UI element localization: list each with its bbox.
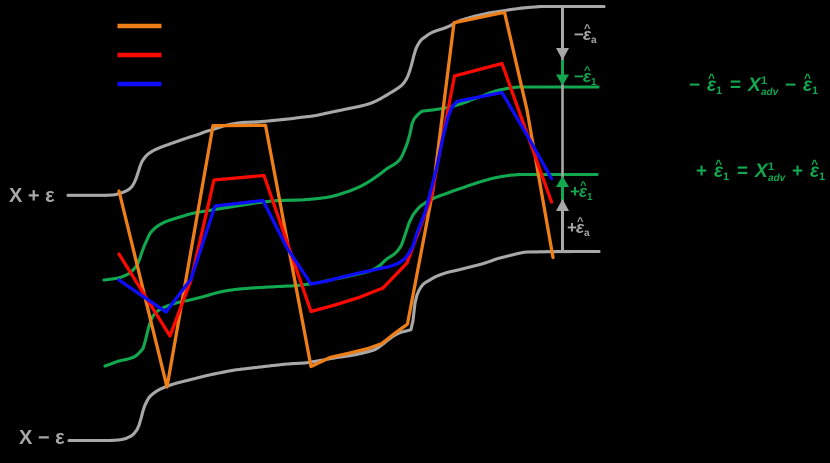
gray down arrow -eps_a [561,8,564,48]
gray up arrow +eps_a [561,211,564,250]
svg-text:a: a [584,228,590,239]
svg-text:−: − [785,75,796,96]
green down arrow -eps_1 [561,60,564,75]
svg-text:1: 1 [723,171,729,183]
svg-text:+: + [696,161,707,182]
curve orange adversarial [119,12,553,387]
svg-text:1: 1 [587,192,593,203]
svg-text:^: ^ [715,157,722,171]
svg-text:1: 1 [761,75,767,87]
label +eps_a [567,216,590,239]
svg-text:^: ^ [804,71,811,85]
legend swatch red [118,53,162,58]
label +eps_1 [570,180,593,203]
label -eps_a [574,23,597,46]
equation plus [696,157,825,184]
svg-text:adv: adv [761,87,780,98]
svg-text:1: 1 [768,161,774,173]
svg-text:=: = [730,75,741,96]
curve upper green -eps1 bound [104,87,598,280]
svg-text:X: X [754,161,769,182]
label -eps_1 [574,65,597,88]
legend swatch blue [118,82,162,87]
svg-text:1: 1 [819,171,825,183]
vertical measurement line [561,8,564,250]
svg-text:=: = [737,161,748,182]
svg-text:adv: adv [768,173,787,184]
svg-text:X + ε: X + ε [9,185,55,207]
svg-text:1: 1 [812,85,818,97]
svg-text:1: 1 [591,77,597,88]
curve lower green +eps1 bound [105,175,597,367]
curve X-eps lower gray bound [69,252,599,441]
svg-text:X: X [747,75,762,96]
svg-text:1: 1 [716,85,722,97]
svg-text:^: ^ [580,180,587,192]
svg-text:^: ^ [811,157,818,171]
svg-text:+: + [792,161,803,182]
svg-text:^: ^ [584,65,591,77]
curve red adversarial [119,64,552,337]
svg-text:a: a [591,35,597,46]
green up arrow +eps_1 [561,187,564,200]
legend swatch orange [118,24,162,29]
svg-text:^: ^ [708,71,715,85]
curve blue adversarial [119,93,552,313]
svg-text:^: ^ [577,216,584,228]
curve X+eps upper gray bound [68,7,604,196]
equation minus [689,71,818,98]
svg-text:−: − [689,75,700,96]
svg-text:^: ^ [584,23,591,35]
svg-text:X − ε: X − ε [19,427,65,449]
